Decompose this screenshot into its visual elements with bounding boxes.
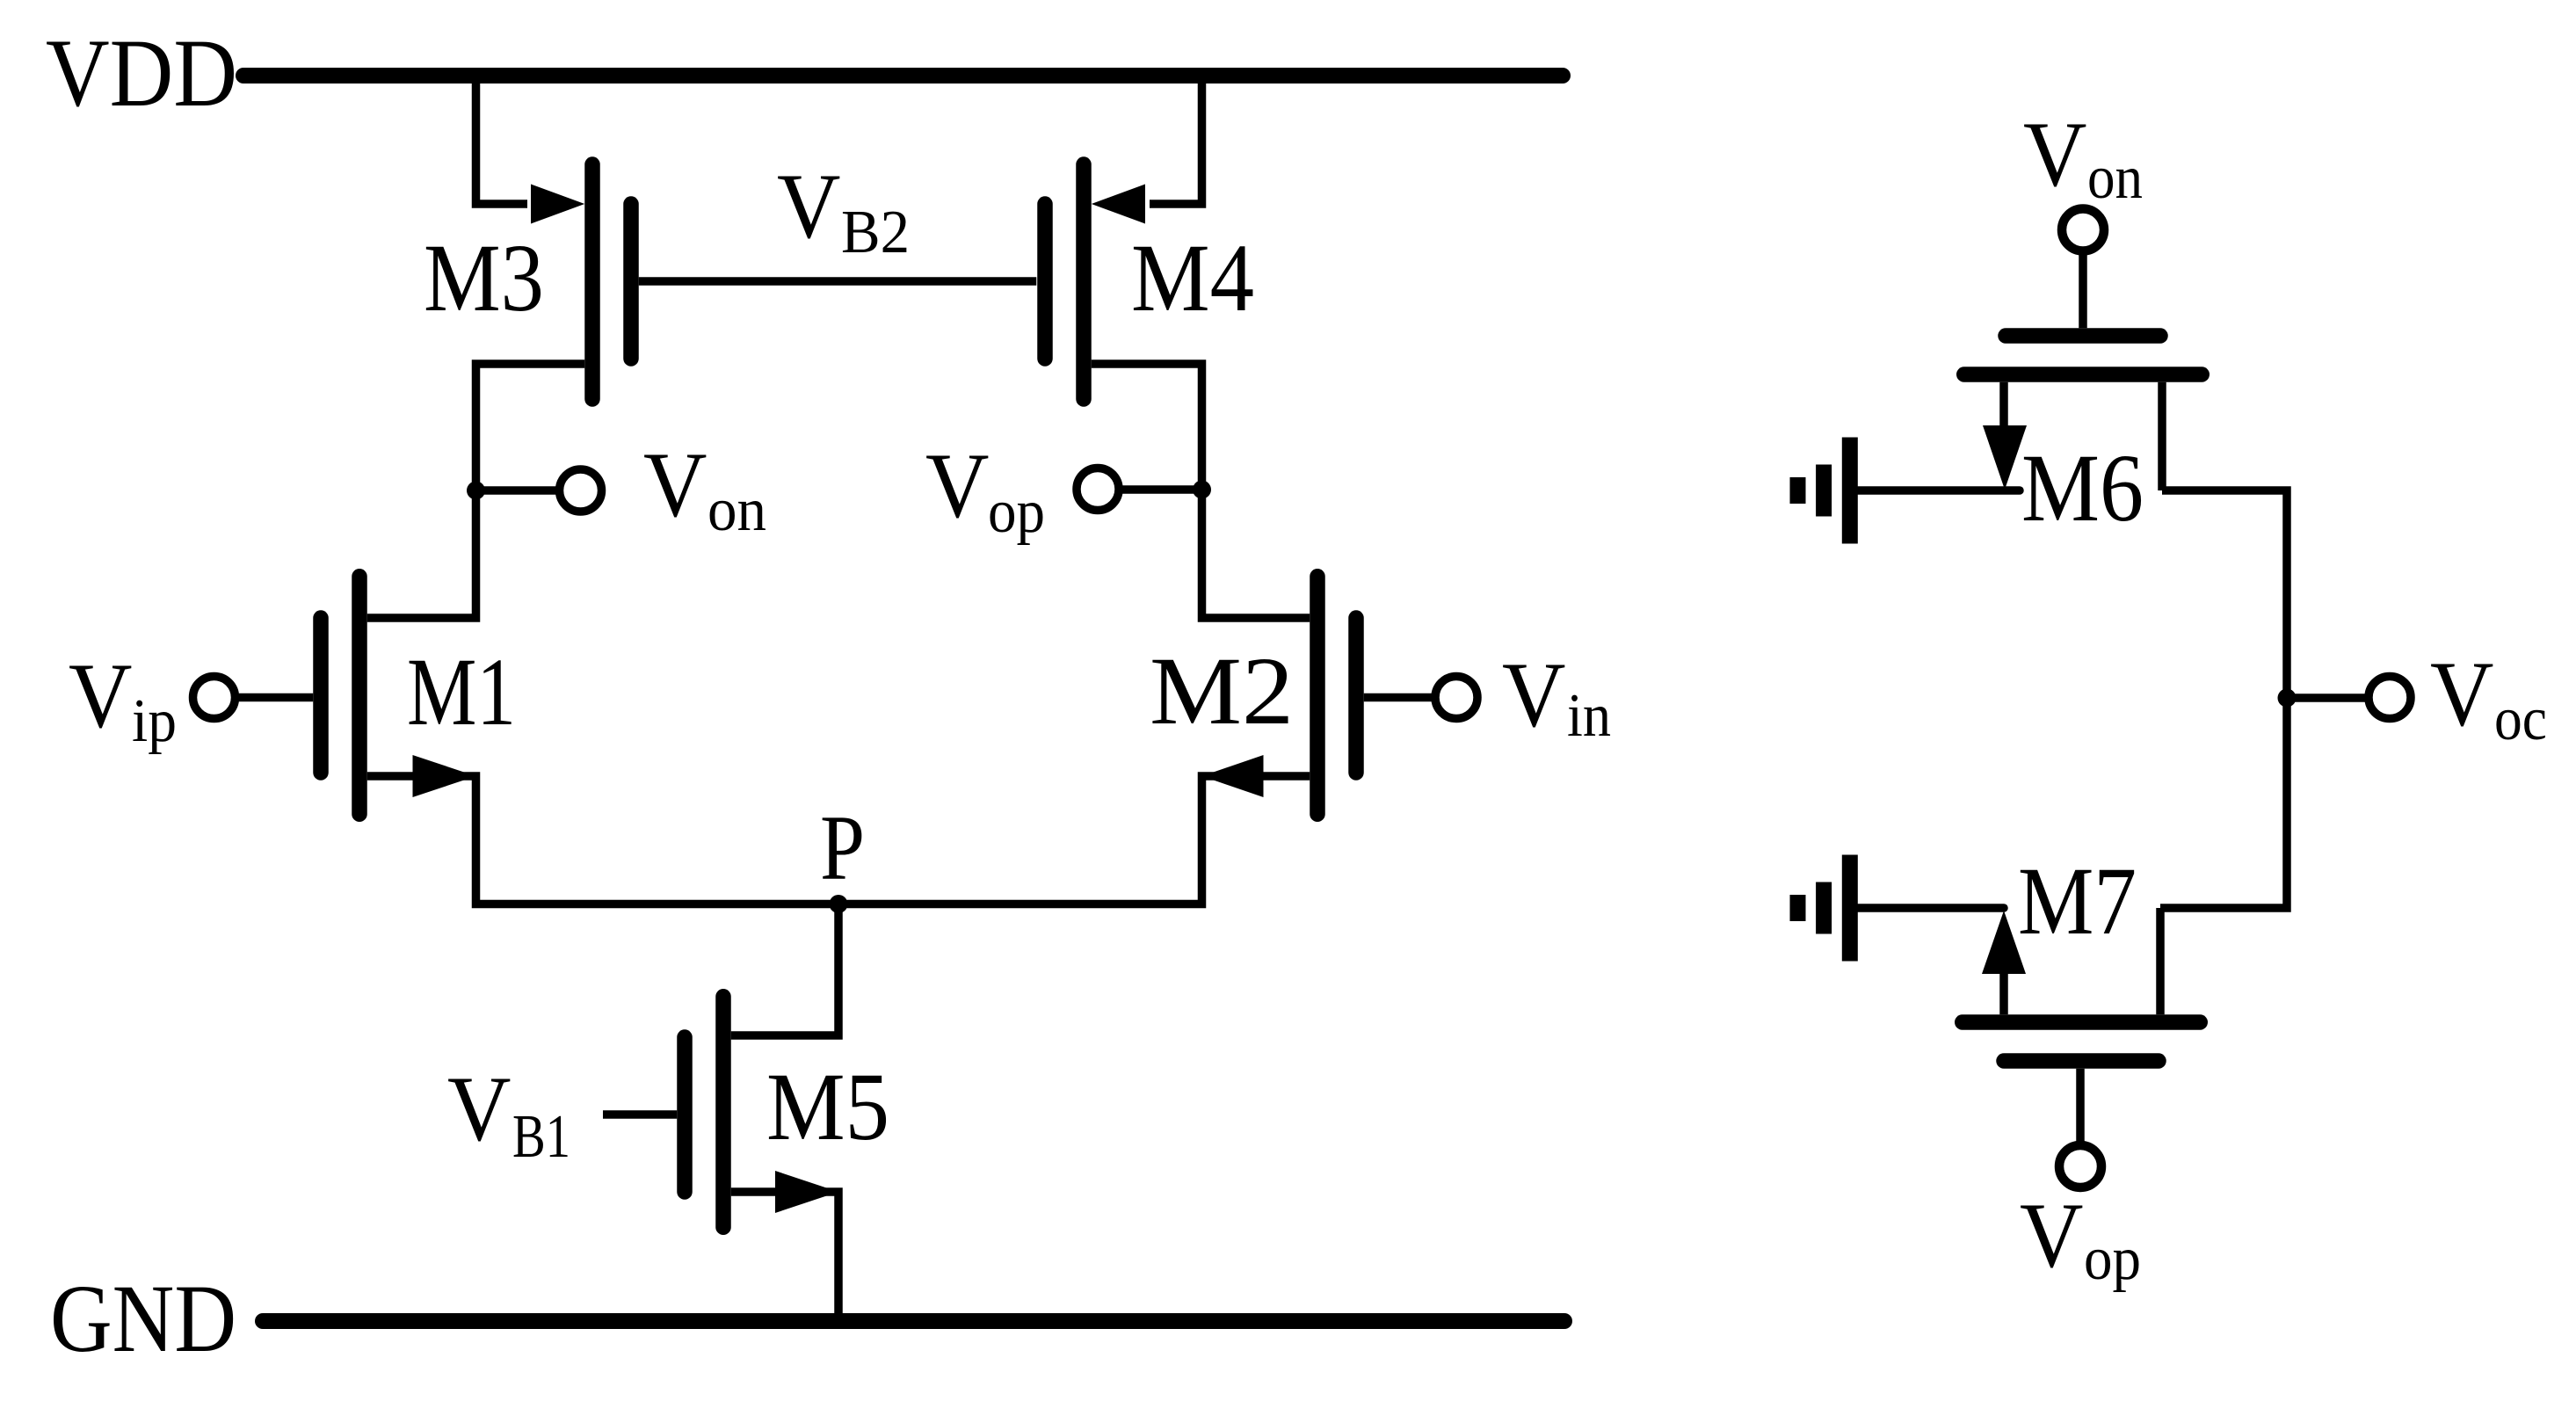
transistor M2 source arrow (NMOS)	[1202, 755, 1264, 797]
terminal Von (right)	[2062, 209, 2104, 251]
svg-text:M6: M6	[2021, 434, 2144, 541]
wire M6 source to AC ground	[1858, 486, 2020, 495]
svg-text:VDD: VDD	[46, 19, 237, 127]
terminal Vop	[1077, 468, 1119, 511]
wire Von terminal to M6 gate	[2079, 255, 2087, 328]
wire Vop terminal to junction	[1122, 485, 1202, 494]
svg-text:ip: ip	[132, 687, 177, 755]
transistor M3 source arrow (PMOS)	[531, 185, 584, 224]
wire M5 source to GND rail	[731, 1192, 838, 1321]
terminal Vin	[1435, 677, 1477, 719]
svg-text:V: V	[2020, 1184, 2084, 1287]
AC ground symbol (M6 source)	[1842, 438, 1858, 544]
wire node Voc to M7 drain	[2160, 698, 2287, 908]
svg-text:V: V	[925, 434, 990, 537]
svg-text:V: V	[2023, 103, 2087, 206]
transistor M5	[715, 997, 731, 1228]
wire M3 drain to M1 drain (net Von)	[367, 364, 585, 618]
wire M4 drain to M2 drain (net Vop)	[1092, 364, 1310, 618]
wire M7 source to AC ground	[1856, 904, 2004, 912]
svg-text:M2: M2	[1150, 637, 1294, 744]
transistor M5 source arrow (NMOS)	[775, 1171, 838, 1213]
wire Voc junction to terminal	[2287, 693, 2365, 702]
svg-text:B2: B2	[841, 199, 910, 266]
transistor M6 source arrow	[1983, 425, 2027, 490]
transistor M7	[1963, 1014, 2201, 1030]
AC ground symbol (M7 source)	[1842, 855, 1858, 962]
wire M2 gate to Vin terminal	[1364, 693, 1432, 702]
transistor M1	[352, 577, 367, 815]
svg-text:in: in	[1567, 682, 1611, 750]
svg-text:B1: B1	[512, 1103, 570, 1171]
node Vop junction	[1193, 481, 1211, 499]
svg-text:M1: M1	[407, 638, 516, 745]
wire M1 source to node P	[367, 776, 838, 904]
terminal Vip	[193, 677, 236, 719]
node P junction	[830, 895, 848, 913]
wire VDD rail to M4 source	[1150, 76, 1202, 204]
svg-text:M5: M5	[766, 1053, 889, 1160]
node Voc junction	[2278, 689, 2297, 708]
wire M3 gate to M4 gate (net VB2)	[639, 277, 1037, 286]
power rail VDD	[243, 68, 1563, 84]
node Von junction	[467, 482, 485, 500]
wire node P to M5 drain	[731, 904, 838, 1036]
svg-text:M7: M7	[2018, 847, 2137, 955]
svg-text:op: op	[988, 478, 1045, 546]
transistor M4	[1076, 164, 1092, 399]
svg-text:V: V	[2430, 643, 2494, 745]
transistor M4 source arrow (PMOS)	[1092, 185, 1145, 224]
svg-text:oc: oc	[2494, 686, 2547, 753]
transistor M6	[1964, 367, 2202, 382]
wire M2 source to node P	[838, 776, 1310, 904]
svg-text:M4: M4	[1131, 224, 1254, 331]
svg-text:V: V	[777, 155, 841, 258]
wire M7 gate to Vop terminal	[2076, 1069, 2085, 1143]
svg-text:P: P	[820, 796, 865, 899]
transistor M3	[584, 164, 600, 399]
svg-text:V: V	[447, 1057, 512, 1160]
svg-text:V: V	[69, 644, 133, 747]
svg-text:M3: M3	[424, 224, 544, 331]
transistor M7 source arrow	[1982, 911, 2026, 974]
wire M6 drain to node Voc	[2162, 490, 2287, 698]
terminal Von	[560, 469, 602, 512]
wire Von junction to terminal	[476, 486, 562, 495]
svg-text:GND: GND	[50, 1265, 236, 1372]
terminal Vop (right)	[2059, 1145, 2101, 1187]
wire M1 gate to Vip terminal	[239, 693, 314, 702]
transistor M2	[1310, 577, 1325, 815]
transistor M1 source arrow (NMOS)	[413, 755, 476, 797]
svg-text:V: V	[1502, 643, 1566, 746]
wire VB1 to M5 gate	[603, 1110, 677, 1119]
svg-text:V: V	[643, 433, 707, 536]
svg-text:on: on	[2087, 144, 2143, 212]
terminal Voc	[2369, 677, 2411, 719]
svg-text:on: on	[707, 476, 766, 544]
ground rail GND	[263, 1313, 1564, 1329]
svg-text:op: op	[2084, 1225, 2141, 1293]
wire VDD rail to M3 source	[476, 76, 528, 204]
